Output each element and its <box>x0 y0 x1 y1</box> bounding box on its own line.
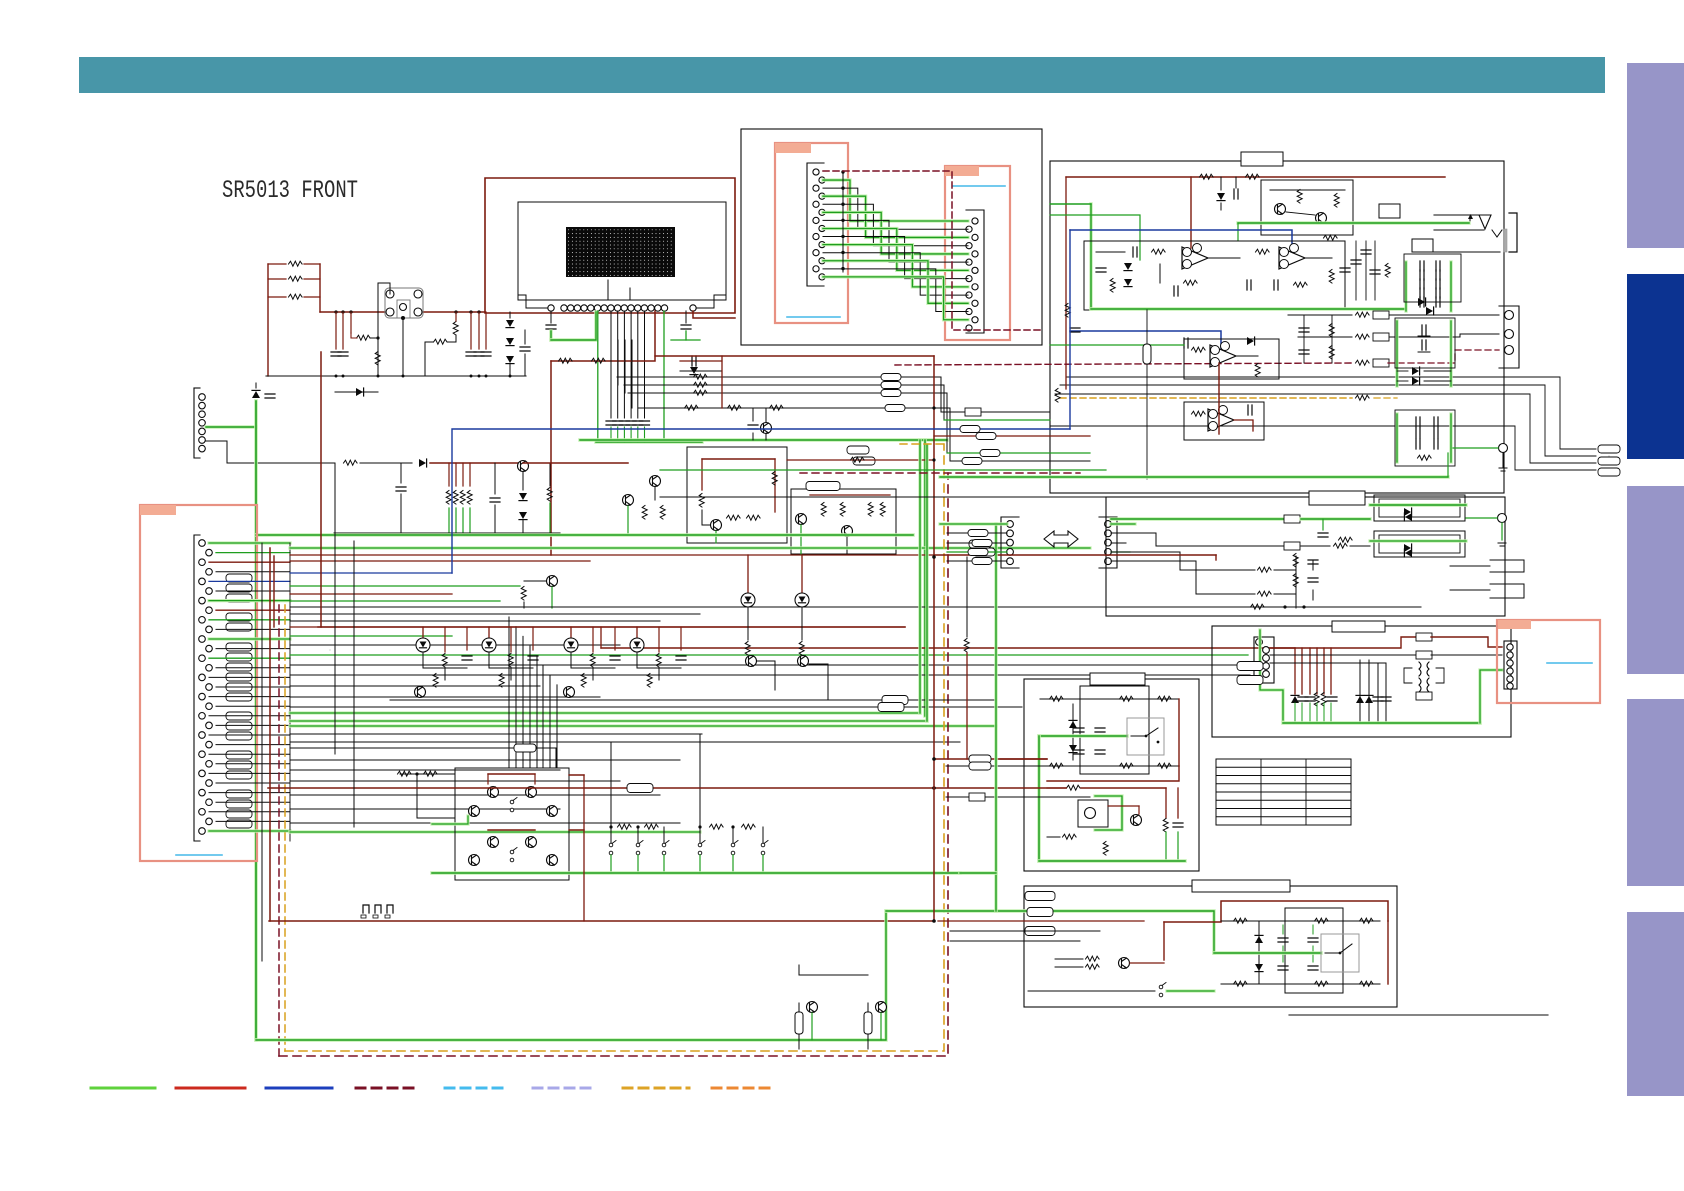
maroon bus 648 <box>601 627 1295 648</box>
maroon trunk x934 <box>932 356 936 923</box>
FL display inner frame <box>518 202 726 300</box>
mid ferrite row <box>329 649 331 651</box>
stby dark feed <box>1000 759 1047 766</box>
phones transformer <box>1404 662 1444 700</box>
maroon bus 352 <box>655 355 934 357</box>
power line diode <box>419 459 523 467</box>
phones label <box>1332 621 1385 632</box>
LED RC clusters <box>416 627 686 687</box>
audio out box <box>1106 497 1505 616</box>
pw green mid <box>1214 951 1321 955</box>
eq bank top <box>1404 254 1461 311</box>
ferrite bead column <box>226 574 252 828</box>
board link conn A pins <box>1007 521 1014 565</box>
diode chain D1-D3 <box>506 312 530 376</box>
sidebar tab 3 <box>1627 486 1684 674</box>
vr diode cap <box>1217 177 1238 210</box>
power transistor Q <box>518 461 529 491</box>
driver box 1 <box>687 447 787 543</box>
vert maroon 274 <box>273 556 275 627</box>
salmon box left <box>140 505 257 861</box>
power line fuse <box>344 460 413 465</box>
psu resistor loop <box>268 261 320 376</box>
display right cap <box>671 311 700 340</box>
cluster right rc <box>425 312 491 376</box>
power line right <box>523 462 628 464</box>
rca row 3 dashed <box>895 350 1499 367</box>
phones maroon bundle <box>1295 648 1331 694</box>
harness crossover wires <box>823 180 968 320</box>
phones mid group <box>1356 660 1391 723</box>
stby switch box <box>1127 718 1164 755</box>
band green 420 <box>944 419 1050 421</box>
stby diodes <box>1069 704 1105 760</box>
stby IC outline <box>1078 800 1108 827</box>
power res v2 <box>547 463 552 533</box>
ferrite line 748 <box>290 744 556 768</box>
stby feed black 766 <box>946 762 1040 770</box>
conn A black feeds <box>947 533 1007 561</box>
analog block label <box>1241 152 1283 166</box>
maroon down right <box>1164 555 1216 922</box>
rca row 1 <box>1288 311 1499 319</box>
black line 607 <box>290 604 1421 609</box>
dashed yellow vert <box>284 605 286 1051</box>
band blue 429 <box>452 230 1070 573</box>
op-amp U3 <box>1192 405 1254 431</box>
ao green wire <box>1111 515 1370 523</box>
ao jack symbols <box>1450 560 1524 598</box>
display green bus under pins <box>551 312 596 340</box>
stby box <box>1024 679 1199 871</box>
caps trio mid <box>1351 241 1390 300</box>
crystal pill <box>1143 310 1151 479</box>
stby resistor row top <box>1040 696 1179 701</box>
legend purple dashed <box>533 1087 597 1090</box>
maroon line 921 <box>269 775 934 921</box>
right edge ferrites <box>1598 445 1620 476</box>
salmon tab harness L <box>775 143 811 153</box>
box1 maroon out <box>787 457 934 462</box>
green vert x927 <box>925 445 928 721</box>
phones conn green frame <box>1260 630 1283 720</box>
op-amp U3 box <box>1184 402 1264 440</box>
legend blue solid <box>266 1087 332 1090</box>
opamp box 1 <box>1084 241 1345 310</box>
tact switch row <box>609 841 768 874</box>
ao diode bank 2 <box>1370 531 1466 557</box>
legend cyan dashed <box>445 1087 509 1090</box>
cluster drops left <box>331 312 380 356</box>
dashed pair bottom <box>279 444 948 1056</box>
conn B stub wires <box>1111 524 1135 561</box>
phones conn bracket <box>1254 637 1274 683</box>
pw ferrite feeds <box>938 892 1144 942</box>
driver Q x552 <box>521 576 557 609</box>
sidebar tab 5 <box>1627 912 1684 1096</box>
switch resistors <box>609 734 763 843</box>
maroon drop 1191 <box>1190 177 1192 248</box>
terminal circle <box>1453 444 1508 472</box>
sidebar tab 2 (active) <box>1627 274 1684 459</box>
green vert x920 <box>918 440 921 713</box>
legend maroon dashed <box>356 1087 420 1090</box>
ferrite y700 <box>882 696 908 705</box>
cyan link left <box>176 854 222 856</box>
op-amp U1b <box>1247 235 1337 290</box>
phones black line 663 <box>1270 662 1386 664</box>
maroon bus 555 right <box>934 554 1216 556</box>
maroon junction 408 <box>722 356 772 440</box>
zener to green <box>252 383 275 398</box>
dashed yellow 398 <box>1060 395 1397 400</box>
long lines to right ferrites <box>1050 377 1596 470</box>
stby label <box>1090 673 1145 685</box>
salmon tab left <box>140 505 176 515</box>
mid transistors <box>623 476 666 534</box>
maroon vertical right <box>1218 363 1220 434</box>
phones box <box>1212 626 1511 737</box>
green bus G1 <box>256 533 913 537</box>
audio out label <box>1309 491 1365 505</box>
rca row 2 <box>1298 333 1499 341</box>
emitter resistors bottom <box>795 965 887 1049</box>
eq bank top diodes <box>1418 298 1434 315</box>
legend green solid <box>91 1087 155 1090</box>
stby res <box>1047 834 1108 855</box>
phones right conn bracket <box>1504 641 1517 689</box>
band green 453 <box>947 450 1090 457</box>
ferrite cluster mid right <box>1237 662 1263 685</box>
q pair <box>1270 190 1345 224</box>
stby feed maroon 759 <box>932 755 1047 763</box>
wires from CN <box>206 427 334 463</box>
gnd bus 376 <box>266 375 526 378</box>
pw bottom line <box>1289 1014 1548 1016</box>
power cap2 <box>490 463 500 533</box>
green jack line <box>1238 223 1469 240</box>
headphone jack <box>1434 213 1517 252</box>
left edge resistors <box>1055 304 1080 403</box>
FL display pin row <box>518 280 726 311</box>
op-amp U2 box <box>1184 339 1279 379</box>
harness conn L bracket <box>807 163 824 286</box>
title SR5013 FRONT <box>222 176 358 205</box>
green vertical main <box>254 401 258 1040</box>
green 342 <box>1050 344 1184 346</box>
cyan link right <box>1547 662 1592 664</box>
display green bus 2 <box>596 427 702 442</box>
op-amp U1a <box>1096 244 1240 297</box>
board link conn A bracket <box>1001 517 1019 568</box>
display pin cap bank <box>606 421 650 425</box>
maroon vert x321 <box>320 352 322 627</box>
ferrite y707 <box>878 703 904 712</box>
phones maroon feed <box>1270 633 1502 648</box>
stby caps right <box>1163 819 1183 862</box>
phones conn pins <box>1256 639 1270 685</box>
phones bundle parts <box>1291 693 1337 707</box>
display pin black drops <box>611 311 645 418</box>
pw bottom switch <box>1028 953 1214 997</box>
cyan link harness R <box>953 185 1005 187</box>
svg-text:SR5013 FRONT: SR5013 FRONT <box>222 176 358 205</box>
driver box 1 inner <box>699 459 777 543</box>
legend yellow dashed <box>623 1087 689 1090</box>
band maroon 436 <box>934 433 1090 440</box>
connector CN left-top <box>194 388 205 458</box>
green vertical right <box>923 440 927 716</box>
LED cluster right pair <box>741 555 828 700</box>
display-block verticals <box>611 340 632 408</box>
black h-lines under display <box>617 356 950 461</box>
harness gnd bus <box>841 170 844 272</box>
maroon bus 627 <box>318 626 905 628</box>
stby maroon loop <box>1047 699 1179 781</box>
sidebar tab 4 <box>1627 699 1684 886</box>
stby maroon 788 <box>1047 785 1178 818</box>
band green 470 <box>660 469 1106 471</box>
dashed yellow 444 <box>900 443 944 445</box>
key matrix box <box>455 768 569 880</box>
sidebar tab 1 <box>1627 63 1684 248</box>
sense divider x967 <box>964 557 969 759</box>
black vert x354 <box>353 541 355 827</box>
stby green path <box>1039 736 1127 861</box>
connector CN main bracket <box>194 535 200 841</box>
band black 497 <box>660 496 1106 498</box>
key matrix left wires <box>398 771 469 824</box>
phones bundle gnd <box>1295 703 1331 723</box>
eq bank mid <box>1395 318 1455 386</box>
green bus switches <box>432 871 960 875</box>
phones green bus <box>1283 670 1502 723</box>
legend orange dashed <box>712 1087 776 1090</box>
rotary encoder S1 <box>378 283 430 320</box>
ao cap 1 <box>1318 519 1352 542</box>
diode feed 392 <box>335 376 378 396</box>
ao diode bank 1 <box>1370 495 1466 521</box>
jack table grid <box>1216 759 1351 825</box>
power caps <box>396 463 406 533</box>
display pin cap left <box>546 311 556 340</box>
harness conn R bracket <box>966 210 984 333</box>
ao rc ladder <box>1293 554 1318 609</box>
FL display module outline (maroon) <box>485 178 735 313</box>
pw res rows <box>1221 918 1380 986</box>
ao output terminal <box>1466 514 1507 547</box>
dashed maroon vert <box>278 605 280 1056</box>
board link conn B pins <box>1105 521 1112 565</box>
conn A pill column <box>968 530 992 565</box>
pw inner box <box>1285 908 1343 993</box>
black mid line 700 <box>390 699 996 701</box>
vert black 262 <box>261 543 263 961</box>
salmon box right <box>1497 620 1600 703</box>
salmon tab harness R <box>945 166 979 176</box>
harness conn L pins <box>813 169 825 280</box>
salmon box harness L <box>775 143 848 323</box>
display green drops <box>598 311 664 438</box>
phones right conn pins <box>1507 644 1513 689</box>
power resistor bank <box>446 463 472 533</box>
cyan link harness L <box>787 316 840 318</box>
phones black line 655 <box>1270 651 1502 659</box>
U1a input network <box>1096 263 1132 292</box>
green ring left <box>1089 204 1092 309</box>
pw green feed <box>886 911 1214 953</box>
vert maroon 270 <box>269 548 271 921</box>
salmon box harness R <box>945 166 1010 340</box>
power diodes v <box>519 493 527 533</box>
ferrite cluster x980 <box>969 540 995 556</box>
black vert x335 <box>334 463 336 754</box>
salmon tab right <box>1498 620 1531 629</box>
connector CN main pins <box>199 540 213 835</box>
pw maroon loop <box>1164 901 1388 984</box>
green bus analog 309 <box>1091 307 1404 311</box>
maroon bus 788 <box>268 784 1066 793</box>
black mid line 707 <box>290 706 1022 708</box>
eq bank bottom <box>1395 410 1455 466</box>
matrix column bundle <box>509 617 557 768</box>
q pair box <box>1261 180 1353 235</box>
header bar <box>79 57 1605 93</box>
green bottom analog <box>940 453 1448 477</box>
jumper glyph <box>361 905 393 918</box>
cluster mid verticals <box>375 283 430 376</box>
stby green bus bottom <box>1039 859 1185 863</box>
bundle fan-out wires <box>290 548 1250 832</box>
green top entry <box>1050 204 1140 260</box>
key matrix maroon rails <box>488 774 584 830</box>
harness dashed maroon <box>823 171 1042 330</box>
ao black steps <box>1111 533 1370 596</box>
display maroon drop <box>551 311 655 555</box>
pw diodes <box>1255 921 1318 984</box>
pw switch box <box>1321 934 1359 972</box>
key matrix transistors <box>469 787 558 866</box>
blue wire 2 <box>1070 331 1221 349</box>
pw transistor <box>1055 956 1164 969</box>
harness conn R pins <box>966 218 978 331</box>
green bus G2 <box>580 438 947 442</box>
band black 412 <box>941 408 1050 416</box>
power box <box>1024 886 1397 1007</box>
power label <box>1192 880 1290 892</box>
op-amp U2 <box>1184 337 1260 377</box>
RCA jack block <box>1499 306 1519 368</box>
eq bank mid diodes <box>1397 367 1451 385</box>
legend red solid <box>176 1087 245 1090</box>
display maroon resistors <box>559 358 606 363</box>
hp mute blocks <box>1379 204 1433 252</box>
dashed maroon 473 <box>800 472 1080 474</box>
harness box <box>741 129 1042 345</box>
FL display dot matrix <box>566 227 675 277</box>
stby feed black 797 <box>946 793 1090 801</box>
vert black 290 <box>289 543 291 841</box>
LED drivers Q <box>390 687 575 701</box>
inter-board arrow <box>1044 531 1078 547</box>
driver box 2 <box>791 489 896 554</box>
green vert x996 <box>994 524 997 911</box>
band black 461 <box>950 458 1090 465</box>
stby IC Q <box>1108 806 1142 826</box>
U1b caps <box>1340 241 1350 272</box>
display maroon right wire <box>693 311 735 318</box>
green bottom route <box>256 911 886 1040</box>
stby inner box <box>1080 686 1149 774</box>
board link conn B bracket <box>1099 517 1117 568</box>
stby resistor row bot <box>1040 763 1179 768</box>
connector fan wires <box>209 543 290 831</box>
green bus 874 ext <box>960 871 996 874</box>
conn A green feed <box>940 522 1007 525</box>
analog block box <box>1050 161 1504 493</box>
ferrites right mid <box>806 446 875 491</box>
blue wire 1 <box>1070 230 1292 250</box>
vr maroon feed <box>1066 174 1445 389</box>
power bus gnd <box>334 532 560 534</box>
maroon bus 312 <box>320 310 485 313</box>
driver box 2 inner <box>796 495 891 554</box>
inter-row rc <box>1299 315 1334 363</box>
stby IC green frame <box>1095 796 1122 830</box>
